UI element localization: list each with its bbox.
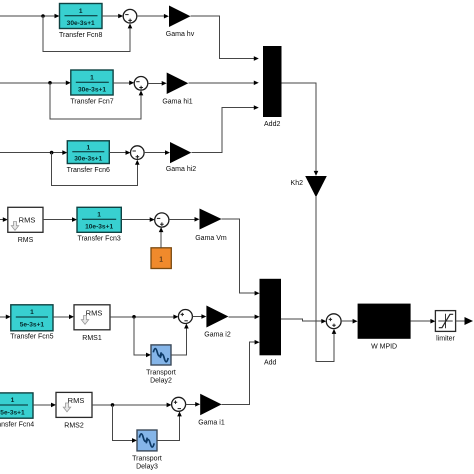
gain Gama hv: [166, 6, 195, 39]
svg-text:RMS: RMS: [18, 237, 34, 244]
svg-text:Transfer Fcn7: Transfer Fcn7: [70, 99, 113, 106]
svg-text:1: 1: [79, 8, 83, 15]
wire: [109, 152, 126, 154]
node branch1: [41, 14, 45, 18]
gain Gama hi2: [166, 142, 196, 173]
svg-text:30e-3s+1: 30e-3s+1: [74, 156, 102, 163]
rms RMS: [8, 207, 43, 244]
wire: [113, 82, 130, 84]
wire output: [456, 320, 465, 322]
sum S4: [155, 213, 169, 227]
transport delay TD3: [132, 430, 162, 471]
wire: [188, 82, 254, 84]
wire: [222, 219, 255, 293]
sum S6: [172, 397, 186, 411]
wire: [316, 197, 334, 361]
node branch3: [50, 151, 54, 155]
gain Gama i2: [204, 306, 231, 339]
subsystem W MPID: [358, 304, 411, 351]
wire: [171, 328, 186, 355]
adder Add: [260, 279, 282, 367]
svg-text:Transfer Fcn3: Transfer Fcn3: [77, 236, 120, 243]
svg-text:Transport: Transport: [146, 370, 176, 377]
wire branch: [134, 317, 146, 355]
wire: [92, 404, 167, 406]
svg-text:Add2: Add2: [264, 121, 280, 128]
svg-text:1: 1: [30, 309, 34, 316]
svg-text:Delay2: Delay2: [150, 378, 172, 385]
wire: [191, 108, 254, 153]
svg-text:Transfer Fcn4: Transfer Fcn4: [0, 422, 34, 429]
transfer fcn TF4: [0, 393, 34, 429]
rms RMS1: [74, 305, 110, 342]
svg-text:10e-3s+1: 10e-3s+1: [85, 224, 113, 231]
wire: [160, 232, 162, 248]
saturation limiter: [435, 311, 455, 343]
wire: [411, 320, 431, 322]
svg-text:1: 1: [11, 397, 15, 404]
sum S1: [123, 9, 137, 23]
wire: [157, 416, 180, 440]
svg-text:5e-3s+1: 5e-3s+1: [0, 410, 25, 417]
node branch5: [132, 315, 136, 319]
transfer fcn TF3: [77, 207, 121, 242]
wire: [281, 319, 322, 321]
svg-text:1: 1: [90, 75, 94, 82]
svg-text:Gama hi2: Gama hi2: [166, 166, 196, 173]
transfer fcn TF7: [70, 70, 113, 106]
svg-text:Add: Add: [264, 360, 277, 367]
svg-text:1: 1: [86, 145, 90, 152]
wire: [43, 219, 72, 221]
sum S2: [134, 77, 148, 91]
svg-text:30e-3s+1: 30e-3s+1: [67, 20, 95, 27]
svg-text:1: 1: [159, 257, 163, 264]
wire: [228, 316, 255, 318]
gain Gama i1: [198, 394, 225, 427]
svg-text:5e-3s+1: 5e-3s+1: [20, 322, 45, 329]
wire: [0, 316, 6, 318]
gain Gama hi1: [162, 73, 192, 106]
wire feedback3: [52, 153, 138, 186]
svg-text:RMS: RMS: [86, 309, 103, 318]
wire feedback2: [50, 83, 141, 119]
svg-text:W MPID: W MPID: [371, 344, 397, 351]
wire: [0, 219, 3, 221]
adder Add2: [263, 46, 282, 128]
gain Gama Vm: [195, 209, 227, 243]
svg-text:Transport: Transport: [132, 456, 162, 463]
wire: [222, 342, 255, 404]
wire feedback1: [43, 16, 130, 52]
svg-text:30e-3s+1: 30e-3s+1: [78, 87, 106, 94]
transfer fcn TF6: [67, 141, 110, 174]
wire: [137, 15, 165, 17]
wire: [53, 316, 69, 318]
svg-text:Delay3: Delay3: [136, 464, 158, 471]
svg-text:Gama hi1: Gama hi1: [162, 99, 192, 106]
wire: [33, 404, 51, 406]
wire branch: [113, 405, 133, 441]
wire: [169, 218, 195, 220]
svg-text:RMS: RMS: [19, 215, 36, 224]
transfer fcn TF5: [10, 305, 53, 341]
wire: [0, 82, 66, 84]
svg-text:Gama i2: Gama i2: [204, 332, 231, 339]
wire: [192, 316, 201, 318]
svg-text:Transfer Fcn5: Transfer Fcn5: [10, 334, 53, 341]
svg-text:Kh2: Kh2: [291, 180, 304, 187]
node branch6: [111, 403, 115, 407]
svg-text:1: 1: [97, 212, 101, 219]
svg-text:Gama Vm: Gama Vm: [195, 235, 227, 242]
wire: [121, 219, 150, 221]
wire: [0, 15, 55, 17]
svg-text:Gama i1: Gama i1: [198, 420, 225, 427]
wire: [148, 82, 162, 84]
svg-text:limiter: limiter: [436, 336, 455, 343]
wire: [110, 316, 174, 318]
wire: [144, 152, 165, 154]
svg-text:Transfer Fcn8: Transfer Fcn8: [59, 32, 102, 39]
sum S5: [178, 310, 192, 324]
svg-text:Gama hv: Gama hv: [166, 31, 195, 38]
node branch2: [48, 81, 52, 85]
transfer fcn TF8: [59, 4, 102, 40]
gain Kh2: [291, 176, 327, 197]
wire: [0, 152, 63, 154]
wire: [341, 320, 353, 322]
svg-text:Transfer Fcn6: Transfer Fcn6: [67, 167, 110, 174]
rms RMS2: [56, 392, 92, 429]
sum S7: [326, 314, 341, 329]
wire: [282, 83, 317, 171]
wire: [186, 403, 196, 405]
wire: [102, 15, 119, 17]
sum S3: [131, 146, 145, 160]
wire: [191, 16, 255, 58]
svg-text:RMS: RMS: [68, 396, 85, 405]
constant C1: [151, 248, 171, 269]
svg-text:RMS2: RMS2: [64, 423, 84, 430]
svg-text:RMS1: RMS1: [82, 335, 102, 342]
transport delay TD2: [146, 345, 176, 385]
